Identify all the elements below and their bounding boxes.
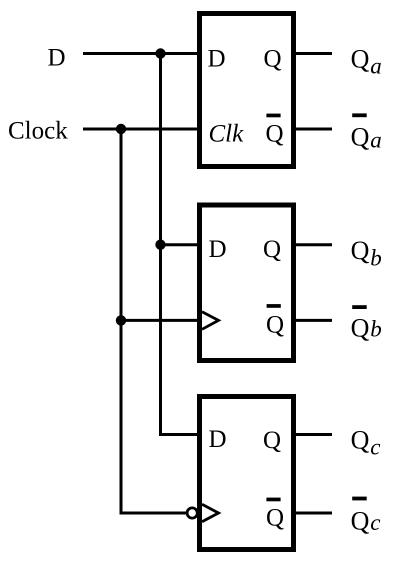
pin label U3 Qbar (266, 498, 284, 532)
svg-text:c: c (370, 435, 380, 460)
wire U3 Q output (294, 433, 332, 436)
flip-flop U2 (200, 205, 294, 361)
svg-text:b: b (370, 317, 382, 342)
label Qa-bar output (351, 113, 382, 152)
pin label U1 Qbar (266, 114, 284, 148)
svg-text:b: b (370, 245, 382, 270)
label Qa output (351, 45, 382, 79)
label Qb output (351, 236, 382, 271)
node D junction (155, 48, 165, 58)
svg-text:Q: Q (264, 46, 282, 73)
svg-text:D: D (48, 45, 66, 72)
svg-text:Q: Q (263, 427, 281, 454)
svg-text:a: a (370, 53, 382, 78)
pin label U2 Qbar (266, 304, 284, 338)
node Clock branch junction U2 (116, 315, 126, 325)
wire U3 Qbar output (294, 512, 332, 515)
wire U2 Qbar output (294, 319, 332, 322)
svg-text:a: a (370, 128, 382, 153)
node D branch junction U2 (155, 240, 165, 250)
svg-text:Clk: Clk (209, 121, 245, 148)
label Qc output (351, 426, 381, 460)
label Qb-bar output (351, 305, 382, 342)
svg-text:Q: Q (351, 122, 370, 151)
wire D input horizontal (83, 52, 199, 55)
wire D vertical bus to U3 (161, 54, 200, 435)
flip-flop U1 (200, 14, 294, 167)
svg-text:Q: Q (351, 506, 370, 535)
clock edge triangle U2 (202, 312, 219, 330)
svg-text:Q: Q (266, 312, 284, 339)
wire U1 Qbar output (294, 128, 332, 131)
svg-text:Clock: Clock (8, 118, 68, 145)
svg-text:D: D (209, 426, 227, 453)
svg-text:Q: Q (263, 236, 281, 263)
wire Clock branch to U2 (121, 319, 199, 322)
wire U1 Q output (294, 52, 332, 55)
svg-text:Q: Q (351, 314, 370, 343)
svg-text:c: c (370, 510, 380, 535)
wire Clock vertical bus to U3 (121, 129, 186, 513)
wire D branch to U2 (161, 243, 200, 246)
svg-text:D: D (208, 46, 226, 73)
svg-text:Q: Q (351, 426, 370, 455)
svg-text:Q: Q (266, 121, 284, 148)
wire Clock input horizontal (83, 128, 199, 131)
flip-flop U3 (200, 397, 294, 550)
svg-text:Q: Q (266, 505, 284, 532)
node Clock junction (116, 124, 126, 134)
clock edge triangle U3 (202, 504, 219, 521)
clock bubble U3 (187, 508, 197, 518)
label Qc-bar output (351, 497, 381, 536)
svg-text:Q: Q (351, 236, 370, 265)
wire U2 Q output (294, 243, 332, 246)
svg-text:D: D (209, 236, 227, 263)
svg-text:Q: Q (351, 45, 370, 74)
